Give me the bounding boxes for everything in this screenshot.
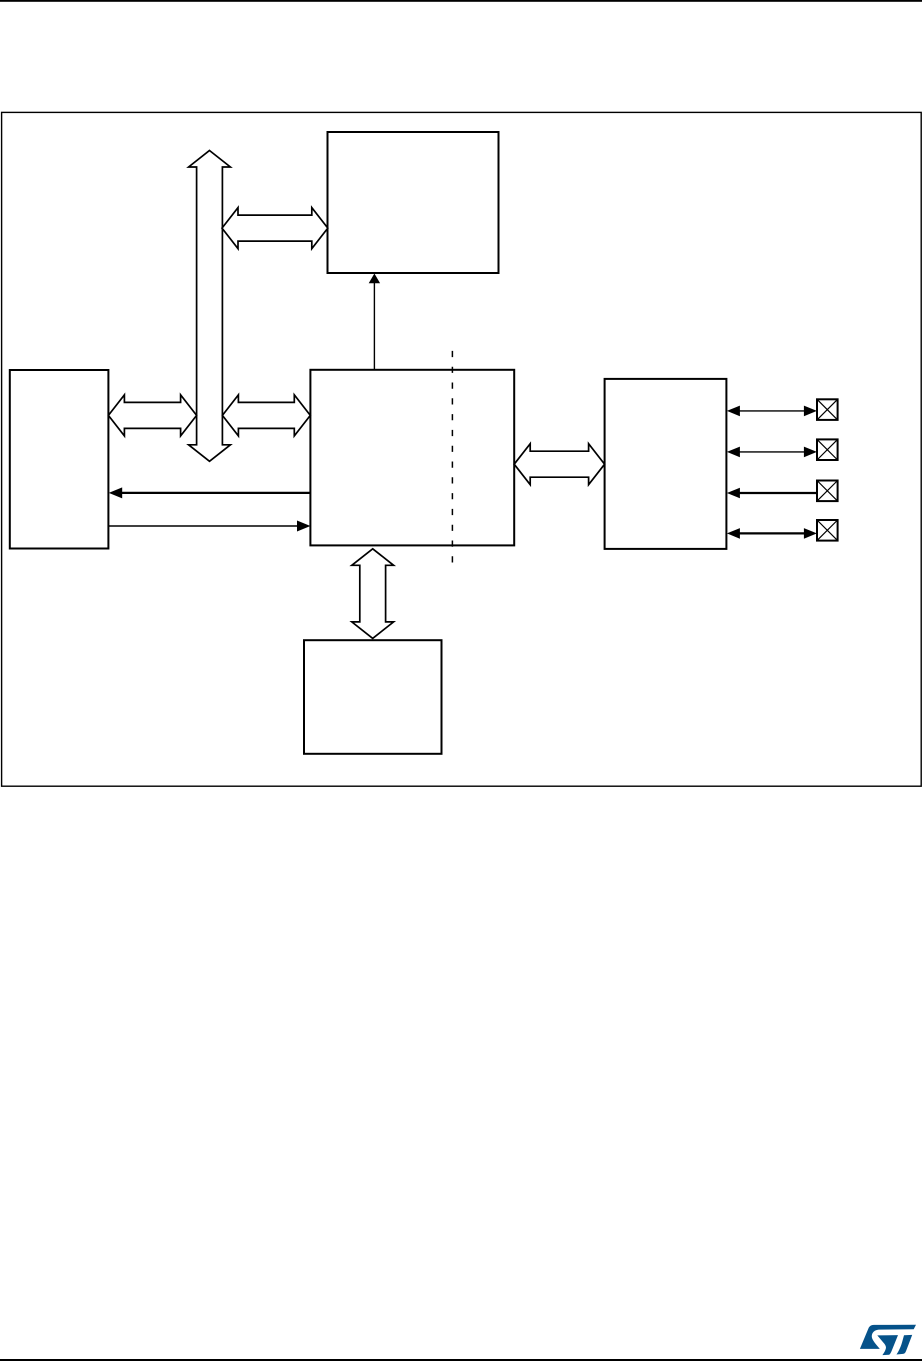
block: bottom box — [304, 640, 442, 754]
double arrow: center box to bottom box — [352, 549, 394, 639]
block: left box — [10, 370, 109, 549]
tall vertical double arrow — [189, 151, 231, 462]
pad symbol 2 — [817, 439, 838, 460]
block: top box — [328, 132, 499, 273]
pad symbol 3 — [817, 481, 838, 502]
io line 4 (double headed thicker) — [738, 532, 806, 534]
double arrow: vertical bus to top box — [222, 208, 328, 249]
io line 1 (double headed thin) — [738, 410, 806, 412]
thin arrow up: center box to top box — [373, 282, 375, 370]
block: center box — [310, 370, 514, 546]
dashed partition line — [451, 351, 453, 570]
io line 2 (double headed thin) — [738, 451, 806, 453]
bottom rule — [0, 1359, 922, 1361]
double arrow: vertical bus to center box — [222, 395, 310, 436]
double arrow: center box to right box — [514, 444, 604, 485]
pad symbol 1 — [817, 399, 838, 420]
figure frame — [2, 112, 922, 786]
ST logo — [860, 1325, 916, 1355]
top rule — [0, 0, 922, 2]
io line 3 (single head left, thicker) — [738, 492, 817, 494]
pad symbol 4 — [817, 520, 838, 541]
block: right box — [605, 379, 727, 549]
arrow: left box to center box (points right) — [108, 525, 298, 527]
arrow: center box to left box (points left) — [121, 492, 310, 494]
double arrow: left box to vertical bus — [108, 395, 196, 436]
